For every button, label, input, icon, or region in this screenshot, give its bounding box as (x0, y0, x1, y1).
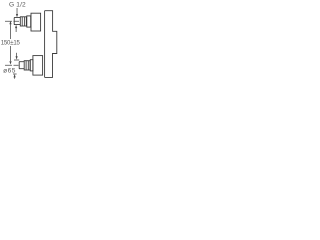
valve drawing group (14, 11, 57, 78)
centerline top valve (5, 20, 19, 22)
svg-text:ø65: ø65 (3, 67, 16, 74)
pipe stub bottom valve (19, 62, 24, 69)
dimension annotations group (1, 1, 26, 78)
svg-text:150±15: 150±15 (1, 41, 21, 47)
centerline bottom valve (5, 64, 19, 66)
dia65 dim: top arrow (down) (16, 53, 18, 60)
dia65 dim: top extension bar (14, 59, 19, 61)
dia65 dim: bottom extension bar (13, 73, 17, 75)
union nut bottom valve (24, 61, 30, 70)
wall line (44, 11, 46, 78)
concealed body stepped profile (45, 11, 57, 78)
valve body bottom valve (30, 60, 33, 71)
150 dim: bottom arrow (down) (9, 46, 11, 65)
union nut top valve (20, 17, 26, 26)
G 1/2 dim: lower arrow (up) (15, 25, 17, 32)
G 1/2 dim: upper arrow (down) (16, 8, 18, 17)
150 dim: top arrow (up) (9, 21, 11, 39)
escutcheon bottom valve (33, 56, 43, 76)
dia65 dim: bottom arrow (up) (14, 74, 16, 79)
escutcheon top valve (31, 13, 41, 31)
pipe stub top valve (14, 18, 20, 25)
valve body top valve (27, 16, 31, 27)
svg-text:G 1/2: G 1/2 (9, 1, 26, 8)
